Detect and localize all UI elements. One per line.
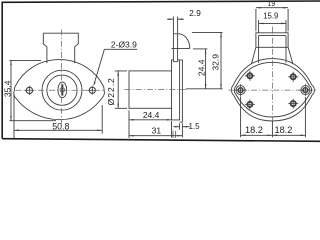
rear view screw top-left bbox=[245, 71, 255, 81]
svg-text:19: 19 bbox=[268, 1, 276, 8]
dim 50.8 line bbox=[14, 129, 102, 131]
dim 24.4 bottom extension lines bbox=[129, 111, 172, 139]
dim 35.4 extension lines bbox=[10, 60, 57, 120]
front view outer boss circle bbox=[42, 70, 82, 110]
side view latch plate bbox=[180, 60, 183, 122]
dim 2.9 extension lines bbox=[173, 17, 177, 34]
dim 19 line bbox=[256, 7, 288, 9]
rear view cam post bbox=[256, 33, 288, 48]
dim 32.9 side arrows bbox=[220, 32, 222, 88]
svg-text:2.9: 2.9 bbox=[189, 8, 201, 18]
dim 35.4 line bbox=[10, 60, 12, 120]
rear view cam flare bbox=[252, 47, 293, 64]
dim 2.9 arrows bbox=[169, 18, 183, 20]
svg-text:32.9: 32.9 bbox=[211, 54, 221, 71]
rear view left hole bbox=[234, 84, 246, 96]
front view tab (neck) bbox=[43, 33, 78, 63]
svg-text:24.4: 24.4 bbox=[143, 110, 160, 120]
front view left mounting hole bbox=[25, 86, 34, 95]
front view inner boss circle bbox=[47, 75, 77, 105]
dim 32.9 side extension line bbox=[192, 31, 223, 33]
side view flange plate bbox=[172, 60, 180, 120]
front view key slot bbox=[61, 84, 63, 95]
side view cam wedge arc bbox=[171, 34, 189, 49]
front view flange outline bbox=[14, 60, 105, 120]
dim 24.4 right line bbox=[205, 49, 207, 89]
rear view outer flange outline bbox=[232, 59, 315, 121]
dim 24.4 right extension line bbox=[193, 48, 207, 50]
rear view screw top-right bbox=[288, 72, 298, 82]
rear view inner flange outline bbox=[234, 62, 311, 117]
dim 19 extension lines bbox=[256, 9, 288, 31]
front view right mounting hole bbox=[88, 86, 97, 95]
rear view screw bottom-left bbox=[245, 99, 255, 109]
dim d22.2 arrows bbox=[117, 71, 119, 108]
dim 18.2 arrows bbox=[241, 135, 306, 137]
svg-text:35.4: 35.4 bbox=[2, 80, 12, 97]
svg-text:15.9: 15.9 bbox=[263, 12, 278, 21]
dim 24.4 bottom arrows bbox=[129, 119, 172, 121]
dim 15.9 line bbox=[259, 22, 286, 24]
dim 15.9 extension lines bbox=[259, 20, 286, 33]
dim 35.4 arrows bbox=[10, 60, 12, 120]
dim 24.4 bottom line bbox=[129, 119, 172, 121]
drawing sheet border bbox=[2, 1, 320, 141]
rear view vertical centerline bbox=[271, 27, 273, 125]
dim 19 arrows bbox=[256, 7, 288, 9]
svg-text:24.4: 24.4 bbox=[197, 59, 207, 76]
front view vertical centerline bbox=[61, 30, 63, 125]
dim 50.8 arrows bbox=[14, 130, 102, 132]
dim d22.2 line bbox=[117, 71, 119, 108]
dim d22.2 extension lines bbox=[115, 71, 127, 108]
svg-text:31: 31 bbox=[152, 126, 162, 136]
svg-text:18.2: 18.2 bbox=[245, 125, 263, 135]
dim 31 line bbox=[129, 135, 182, 137]
dim 50.8 extension lines bbox=[14, 94, 102, 139]
svg-text:2-Ø3.9: 2-Ø3.9 bbox=[111, 39, 137, 49]
dim 15.9 arrows bbox=[259, 23, 286, 25]
dim 18.2 extension lines bbox=[241, 97, 306, 138]
side view horizontal centerline bbox=[125, 89, 187, 91]
front view key slot circle bbox=[60, 88, 65, 93]
rear view screw bottom-right bbox=[288, 99, 298, 109]
dim 1.5 line bbox=[173, 126, 189, 128]
rear view right hole bbox=[299, 84, 311, 96]
side view cylinder bbox=[129, 71, 172, 108]
front view horizontal centerline bbox=[16, 89, 104, 91]
rear view cam post inner contour bbox=[259, 36, 286, 63]
rear view horizontal centerline bbox=[229, 89, 318, 91]
dim 1.5 arrows bbox=[175, 126, 187, 128]
svg-text:50.8: 50.8 bbox=[52, 122, 69, 132]
front view keyhole oval bbox=[58, 82, 67, 98]
side centerline extension bbox=[186, 88, 223, 90]
dim 31 arrows bbox=[129, 135, 182, 137]
dim 31 tick marks bbox=[173, 131, 176, 138]
side view cam post bbox=[173, 34, 178, 62]
svg-text:Ø22.2: Ø22.2 bbox=[106, 77, 116, 105]
leader 2-d3.9 bbox=[94, 49, 137, 84]
svg-text:1.5: 1.5 bbox=[188, 122, 200, 131]
leader arrow bbox=[93, 82, 95, 87]
dim 24.4 right arrows bbox=[205, 49, 207, 89]
dim 32.9 side line bbox=[220, 32, 222, 88]
dim 1.5 extension lines bbox=[180, 123, 183, 137]
dim 18.2 line bbox=[241, 134, 306, 136]
svg-text:18.2: 18.2 bbox=[274, 125, 292, 135]
dim 2.9 line bbox=[167, 18, 184, 20]
